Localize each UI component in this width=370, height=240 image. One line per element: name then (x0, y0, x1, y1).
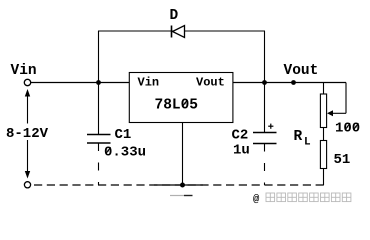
capacitor C2 (253, 83, 277, 144)
svg-text:Vin: Vin (138, 76, 160, 90)
svg-text:C2: C2 (232, 128, 249, 144)
svg-text:1u: 1u (233, 143, 250, 159)
svg-text:100: 100 (335, 121, 360, 137)
svg-text:Vout: Vout (196, 76, 225, 90)
wire riser to top / C1 lead (98, 31, 100, 135)
terminal Vin (24, 79, 30, 85)
label RL (294, 129, 312, 149)
svg-text:0.33u: 0.33u (104, 145, 146, 161)
svg-text:C1: C1 (115, 127, 132, 143)
svg-text:D: D (170, 8, 179, 24)
svg-text:51: 51 (334, 152, 351, 168)
wire top-right drop (264, 31, 266, 83)
node ground junction (180, 183, 185, 188)
terminal ground left (24, 182, 30, 188)
watermark (253, 193, 351, 206)
svg-text:Vin: Vin (11, 63, 37, 79)
ground bus dashed (34, 184, 324, 186)
svg-text:8-12V: 8-12V (6, 126, 49, 142)
capacitor C1 (87, 135, 111, 144)
ground bar (170, 195, 193, 197)
svg-text:L: L (304, 137, 311, 149)
node input junction (96, 80, 101, 85)
wire C2 lower dashed (264, 144, 266, 186)
svg-text:R: R (294, 129, 303, 145)
svg-text:78L05: 78L05 (155, 98, 199, 114)
wire input horizontal (31, 82, 129, 84)
IC U1 78L05 (129, 73, 233, 123)
wire C1 lower dashed (98, 143, 100, 185)
svg-text:Vout: Vout (284, 63, 319, 79)
wire top diode net (98, 30, 265, 32)
wire output horizontal (233, 82, 346, 84)
label 8-12V (4, 124, 50, 143)
node Vout (291, 80, 296, 85)
potentiometer 100 (320, 83, 346, 128)
node output junction (262, 80, 267, 85)
resistor 51 (320, 128, 326, 186)
ground bus solid segment (154, 184, 203, 186)
voltage arrows 8-12V (25, 89, 30, 179)
diode D (172, 26, 185, 38)
wire IC ground (182, 123, 184, 186)
svg-text:@: @ (253, 194, 260, 206)
